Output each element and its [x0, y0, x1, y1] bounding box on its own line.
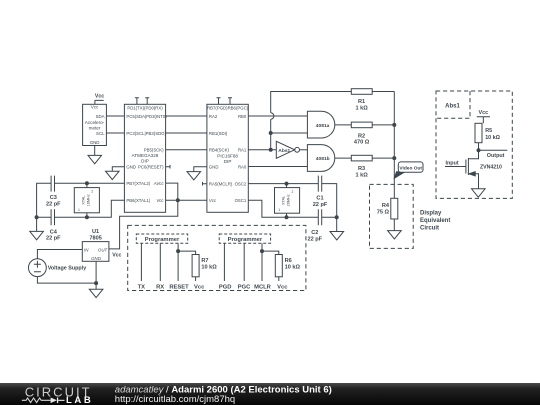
resistor R4 — [391, 198, 398, 219]
svg-text:OSC1: OSC1 — [235, 198, 247, 203]
crystal X2 20MHz box — [275, 184, 300, 218]
svg-text:R5: R5 — [485, 128, 492, 134]
svg-text:R4: R4 — [382, 203, 390, 209]
svg-text:1: 1 — [278, 208, 280, 212]
svg-text:7805: 7805 — [89, 235, 101, 241]
svg-text:R1: R1 — [358, 99, 365, 105]
wire AVcc Vcc routing to U1 OUT — [109, 183, 178, 249]
svg-text:1: 1 — [78, 208, 80, 212]
crystal X1 16MHz box — [74, 183, 99, 217]
wire RX — [159, 243, 161, 281]
node Vcc junction at ATMEGA/PIC — [176, 199, 179, 202]
svg-text:MCLR: MCLR — [254, 285, 272, 291]
svg-text:meter: meter — [89, 126, 101, 131]
svg-text:RA2: RA2 — [209, 114, 218, 119]
svg-text:Vcc: Vcc — [194, 285, 205, 291]
label R5 value — [485, 128, 500, 141]
svg-text:10 kΩ: 10 kΩ — [201, 265, 217, 271]
capacitor C3 — [51, 176, 54, 192]
svg-text:RB4(SCK): RB4(SCK) — [209, 148, 230, 153]
svg-text:Vcc: Vcc — [277, 285, 288, 291]
ATMEGA top NC stub PD0(RX) — [145, 98, 149, 105]
PIC16F88 DIP name — [217, 154, 238, 164]
svg-text:C1: C1 — [316, 196, 323, 202]
svg-text:Display: Display — [420, 211, 442, 217]
ATMEGA top NC stub PD1(TX) — [135, 98, 139, 105]
label R4 value — [377, 203, 390, 215]
svg-text:Voltage Supply: Voltage Supply — [48, 266, 87, 272]
label C2 value — [307, 230, 322, 242]
svg-text:Input: Input — [446, 161, 459, 167]
wire RESET — [177, 243, 179, 281]
ATMEGA pin labels — [126, 105, 167, 203]
Abs1 label dashed box — [436, 91, 470, 118]
flag Video Out callout — [394, 162, 423, 178]
label Display Equivalent Circuit — [420, 211, 450, 232]
PIC top NC stub RB6(PGC) — [228, 98, 232, 105]
label R3 value — [355, 166, 368, 178]
capacitor C1 — [318, 176, 321, 192]
label R1 value — [355, 99, 368, 111]
svg-text:RA0: RA0 — [238, 165, 247, 170]
ground (Abs1) — [472, 189, 486, 197]
svg-text:PB7(XTAL2): PB7(XTAL2) — [126, 181, 150, 186]
svg-text:10 kΩ: 10 kΩ — [285, 265, 301, 271]
node C2 rail junction — [335, 216, 338, 219]
label C4 value — [46, 229, 61, 241]
svg-text:10 kΩ: 10 kΩ — [485, 135, 500, 141]
Vcc symbol (Abs1) — [477, 117, 490, 124]
op-amp U2 ATMEGA328 DIP box — [124, 104, 165, 212]
svg-text:PB6(XTAL1): PB6(XTAL1) — [126, 198, 150, 203]
svg-text:TX: TX — [138, 285, 146, 291]
label U1 7805 — [89, 229, 101, 242]
ground (C1/C2) — [330, 232, 344, 240]
ground (PIC GND) — [187, 167, 207, 180]
accelerometer module box — [83, 104, 107, 145]
PIC RA5(MCLR) NC stub — [203, 182, 207, 186]
wire RA1 net vertical with hop over RB0 — [271, 92, 352, 150]
wire R3 to video rail — [372, 157, 394, 159]
wire PIC RA0 to 4081b input2 — [248, 166, 307, 168]
node R3 rail junction — [393, 157, 396, 160]
svg-text:XTAL: XTAL — [282, 196, 286, 205]
svg-text:http://circuitlab.com/cjm87hq: http://circuitlab.com/cjm87hq — [115, 394, 235, 405]
svg-text:4081b: 4081b — [316, 156, 330, 162]
svg-text:Vcc: Vcc — [95, 94, 104, 100]
svg-text:16MHz: 16MHz — [87, 194, 91, 206]
svg-text:2: 2 — [291, 190, 293, 194]
resistor R1 — [351, 89, 372, 95]
svg-text:R7: R7 — [201, 258, 208, 264]
wire V1 minus to ground rail — [37, 261, 96, 283]
svg-text:RB1(SDI): RB1(SDI) — [209, 131, 228, 136]
svg-text:OSC2: OSC2 — [235, 182, 247, 187]
node XTAL2 top junction — [285, 182, 288, 185]
svg-text:U1: U1 — [92, 229, 99, 235]
wire R2 to video rail — [372, 124, 394, 126]
wire R1 to video rail — [372, 91, 394, 93]
svg-text:Vcc: Vcc — [156, 198, 164, 203]
label X1 16MHz rotated — [78, 189, 93, 211]
svg-text:R2: R2 — [358, 133, 365, 139]
PIC top NC stub RB7(PGD) — [217, 98, 221, 105]
wire PB6(XTAL1) net — [37, 200, 125, 217]
logo resistor zigzag — [22, 398, 51, 403]
programmer 2 connector dashed box — [219, 234, 270, 243]
label X2 20MHz rotated — [278, 190, 293, 212]
svg-text:RA5(MCLR): RA5(MCLR) — [209, 182, 233, 187]
svg-text:PC6(RESET): PC6(RESET) — [138, 165, 164, 170]
flag Output node — [479, 149, 508, 151]
svg-text:SDA: SDA — [96, 114, 105, 119]
svg-text:Output: Output — [487, 153, 505, 159]
svg-text:RB0: RB0 — [238, 114, 247, 119]
svg-text:PGD: PGD — [219, 285, 232, 291]
U1 pin labels — [84, 247, 108, 261]
wire V1 to U1 IN — [37, 250, 82, 259]
wire 4081a input2 — [271, 132, 308, 134]
svg-text:22 pF: 22 pF — [313, 202, 328, 208]
svg-text:ATMEGA328: ATMEGA328 — [132, 153, 159, 158]
svg-text:GND: GND — [91, 256, 102, 261]
svg-text:XTAL: XTAL — [82, 196, 86, 205]
svg-text:75 Ω: 75 Ω — [377, 209, 390, 215]
resistor R2 — [351, 122, 372, 128]
svg-text:RESET: RESET — [169, 285, 189, 291]
svg-text:PIC16F88: PIC16F88 — [217, 154, 238, 159]
wire ATMEGA PC3 to PIC RB1 — [166, 132, 207, 134]
svg-text:IN: IN — [84, 247, 89, 252]
display equivalent dashed box — [370, 184, 414, 248]
svg-text:Equivalent: Equivalent — [420, 218, 450, 224]
ground (accelerometer) — [88, 146, 102, 164]
wire PIC OSC1 to C2 — [248, 200, 318, 217]
svg-text:C4: C4 — [50, 229, 58, 235]
svg-text:R6: R6 — [285, 258, 292, 264]
wire Vcc between ATMEGA and PIC — [166, 199, 207, 201]
label R2 value — [354, 133, 370, 145]
resistor R7 — [178, 251, 199, 281]
wire 4081b output to R3 — [335, 157, 352, 159]
svg-text:PC3(SCL|PB3(SDO): PC3(SCL|PB3(SDO) — [126, 131, 166, 136]
node RA1 junction — [269, 148, 272, 151]
node C3/C4 ground rail junction — [35, 216, 38, 219]
svg-text:Abs1: Abs1 — [278, 148, 290, 154]
svg-text:Programmer: Programmer — [228, 237, 263, 243]
ground (ATMEGA GND) — [106, 167, 125, 180]
PIC pin labels — [207, 105, 249, 203]
AND gate 4081a — [307, 111, 334, 138]
wire TX — [140, 243, 142, 281]
svg-text:GND: GND — [126, 165, 136, 170]
wire SCL accel to ATMEGA — [106, 132, 124, 134]
transistor M1 ZVN4210 — [461, 150, 479, 189]
resistor R3 — [351, 155, 372, 161]
wire MCLR — [261, 243, 263, 281]
capacitor C2 — [318, 209, 321, 225]
wire PGD — [223, 243, 225, 281]
resistor R5 — [475, 123, 482, 142]
programmer outer dashed box — [128, 225, 306, 290]
svg-text:LAB: LAB — [66, 395, 93, 405]
svg-text:Vcc: Vcc — [209, 198, 217, 203]
wire PIC RA1 to inverter — [248, 149, 276, 151]
wire PGC — [243, 243, 245, 281]
ground (C3/C4) — [30, 231, 44, 239]
svg-text:22 pF: 22 pF — [307, 236, 322, 242]
ATMEGA PC6(RESET) NC stub — [166, 165, 170, 169]
svg-text:SCL: SCL — [96, 131, 105, 136]
svg-text:PGC: PGC — [238, 285, 251, 291]
svg-text:4081a: 4081a — [316, 123, 330, 129]
Vcc symbol (accelerometer) — [95, 100, 104, 104]
programmer 1 connector dashed box — [136, 234, 187, 243]
svg-text:C2: C2 — [311, 230, 318, 236]
svg-text:Accelero-: Accelero- — [85, 120, 105, 125]
svg-text:PB5(SCK): PB5(SCK) — [144, 148, 164, 153]
svg-text:PC5(SDA|PD3(INT0): PC5(SDA|PD3(INT0) — [126, 114, 167, 119]
capacitor C4 — [51, 209, 54, 225]
wire R4 to ground — [393, 219, 395, 231]
node Output junction — [477, 149, 480, 152]
node U1 GND junction — [95, 282, 98, 285]
node R2 rail junction — [393, 123, 396, 126]
svg-text:Vcc: Vcc — [112, 252, 121, 258]
wire PIC OSC2 to C1 — [248, 183, 318, 185]
voltage source V1 — [29, 259, 47, 277]
voltage regulator U1 7805 box — [82, 242, 109, 262]
flag Input node — [445, 166, 461, 168]
label R6 value — [285, 258, 301, 271]
accelerometer name — [85, 120, 105, 130]
svg-text:Abs1: Abs1 — [445, 104, 460, 110]
svg-text:OUT: OUT — [98, 247, 108, 252]
Abs1 subcircuit outer dashed box — [436, 91, 512, 198]
svg-text:RA1: RA1 — [238, 148, 247, 153]
svg-text:22 pF: 22 pF — [46, 201, 61, 207]
wire 4081a output to R2 — [335, 124, 352, 126]
svg-text:Vcc: Vcc — [91, 104, 99, 109]
wire RB0 to 4081a input1 — [248, 115, 307, 117]
svg-text:470 Ω: 470 Ω — [354, 140, 370, 146]
node MCLR junction — [261, 250, 264, 253]
accelerometer pin labels — [90, 104, 105, 144]
AND gate 4081b — [307, 145, 334, 172]
svg-text:Video Out: Video Out — [399, 165, 422, 171]
svg-text:Programmer: Programmer — [145, 237, 180, 243]
svg-text:PD1(TX)(PD0(RX): PD1(TX)(PD0(RX) — [127, 105, 163, 110]
svg-text:GND: GND — [90, 140, 100, 145]
wire R5 to drain node — [478, 143, 480, 151]
wire video output rail — [393, 92, 395, 199]
wire ATMEGA PB5(SCK) to PIC RB4(SCK) — [166, 149, 207, 151]
logo diode — [51, 398, 65, 404]
svg-text:RX: RX — [156, 285, 164, 291]
wire C1 C2 to ground rail — [322, 184, 337, 232]
node XTAL2 bottom junction — [285, 216, 288, 219]
svg-text:C3: C3 — [50, 195, 57, 201]
svg-text:GND: GND — [209, 165, 219, 170]
label C1 value — [313, 196, 328, 208]
ATMEGA328 DIP name — [132, 153, 159, 163]
inverter Abs1 buffer — [276, 141, 307, 158]
IC U3 PIC16F88 DIP box — [207, 104, 248, 212]
svg-text:ZVN4210: ZVN4210 — [480, 165, 502, 171]
svg-text:AVcc: AVcc — [153, 181, 165, 186]
node XTAL1 top junction — [85, 182, 88, 185]
node XTAL1 bottom junction — [85, 216, 88, 219]
svg-text:2: 2 — [91, 189, 93, 193]
node 4081a input2 junction — [269, 132, 272, 135]
svg-text:Vcc: Vcc — [479, 110, 489, 116]
wire ATMEGA PC5 to PIC RA2 — [166, 115, 207, 117]
svg-text:DIP: DIP — [224, 159, 232, 164]
svg-text:DIP: DIP — [141, 159, 149, 164]
svg-text:1 kΩ: 1 kΩ — [355, 106, 368, 112]
wire PB7(XTAL2) net — [37, 183, 125, 231]
svg-text:RB7(PGD)RB6(PGC): RB7(PGD)RB6(PGC) — [207, 105, 249, 110]
resistor R6 — [262, 251, 282, 281]
ground (supply) — [89, 283, 103, 298]
label R7 value — [201, 258, 217, 271]
node RESET junction — [177, 250, 180, 253]
programmer pin name labels — [138, 285, 289, 291]
ground (R4) — [388, 231, 402, 239]
svg-text:Circuit: Circuit — [420, 226, 439, 232]
svg-text:1 kΩ: 1 kΩ — [355, 172, 368, 178]
label C3 value — [46, 195, 61, 207]
svg-text:20MHz: 20MHz — [287, 194, 291, 206]
svg-text:R3: R3 — [358, 166, 365, 172]
wire SDA accel to ATMEGA — [106, 115, 124, 117]
svg-text:22 pF: 22 pF — [46, 236, 61, 242]
